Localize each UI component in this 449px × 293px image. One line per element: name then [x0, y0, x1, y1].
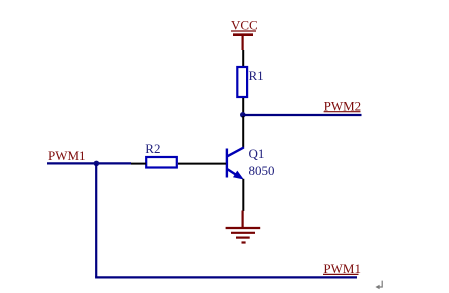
- wire base to R2: [178, 163, 226, 165]
- wire R2 to navy segment: [131, 163, 146, 165]
- svg-text:PWM1: PWM1: [323, 261, 361, 276]
- wire node to PWM2: [243, 114, 362, 116]
- wire vertical branch down: [95, 163, 97, 277]
- net label PWM1 bottom: [323, 261, 361, 276]
- svg-text:8050: 8050: [249, 163, 275, 178]
- wire node to collector: [242, 116, 244, 148]
- power symbol VCC: [231, 18, 258, 50]
- wire emitter to ground: [242, 179, 244, 211]
- junction node PWM1 branch: [94, 161, 100, 167]
- svg-text:VCC: VCC: [231, 18, 258, 33]
- junction node below R1: [240, 112, 246, 118]
- resistor R1: [237, 67, 263, 97]
- wire R1 to node: [242, 98, 244, 113]
- svg-text:PWM1: PWM1: [48, 148, 86, 163]
- ground: [226, 211, 261, 243]
- paragraph mark: [375, 281, 382, 290]
- svg-text:R1: R1: [249, 68, 264, 83]
- wire bottom to PWM1: [95, 276, 357, 278]
- wire VCC to R1: [242, 50, 244, 67]
- net label PWM2: [324, 98, 362, 113]
- wire PWM1 horizontal: [47, 162, 131, 164]
- transistor Q1 8050: [227, 146, 275, 180]
- svg-text:Q1: Q1: [249, 146, 265, 161]
- net label PWM1 top: [48, 148, 86, 163]
- svg-text:R2: R2: [145, 141, 160, 156]
- resistor R2: [145, 141, 177, 167]
